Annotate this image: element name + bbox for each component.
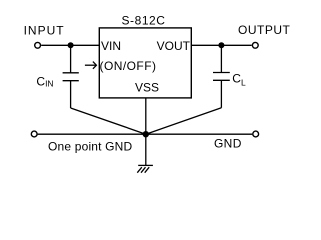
wire GND rail bbox=[38, 133, 253, 135]
svg-text:VIN: VIN bbox=[101, 39, 121, 53]
wire CL diagonal to one-point node bbox=[146, 108, 222, 134]
wire VOUT to output bbox=[191, 44, 251, 46]
wire CIN bottom lead bbox=[70, 81, 72, 108]
ground bbox=[137, 165, 153, 172]
svg-text:VOUT: VOUT bbox=[157, 39, 191, 53]
terminal one point GND bbox=[31, 131, 37, 137]
svg-text:S-812C: S-812C bbox=[122, 14, 166, 28]
junction one point GND node bbox=[143, 131, 149, 137]
capacitor C2 CL bbox=[146, 45, 230, 134]
svg-text:OUTPUT: OUTPUT bbox=[238, 23, 291, 37]
wire CIN diagonal to one-point node bbox=[71, 108, 146, 134]
op-amp U1 S-812C regulator body bbox=[99, 28, 191, 98]
terminal OUTPUT bbox=[252, 42, 258, 48]
junction input node bbox=[68, 42, 74, 48]
wire ON/OFF arrow bbox=[85, 62, 97, 69]
wire CL bottom lead bbox=[220, 80, 222, 108]
junction output node bbox=[218, 42, 224, 48]
wire VSS down through one-point node to ground bbox=[145, 98, 147, 165]
terminal GND bbox=[253, 131, 259, 137]
svg-text:INPUT: INPUT bbox=[24, 24, 65, 38]
svg-text:One point GND: One point GND bbox=[48, 140, 133, 154]
terminal INPUT bbox=[35, 42, 41, 48]
wire input junction to CIN top bbox=[70, 45, 72, 73]
wire output junction to CL top bbox=[220, 45, 222, 72]
capacitor C1 CIN bbox=[63, 45, 146, 134]
svg-text:VSS: VSS bbox=[135, 81, 159, 95]
svg-text:GND: GND bbox=[214, 136, 242, 150]
wire input to VIN bbox=[41, 44, 99, 46]
svg-text:(ON/OFF): (ON/OFF) bbox=[100, 59, 157, 73]
